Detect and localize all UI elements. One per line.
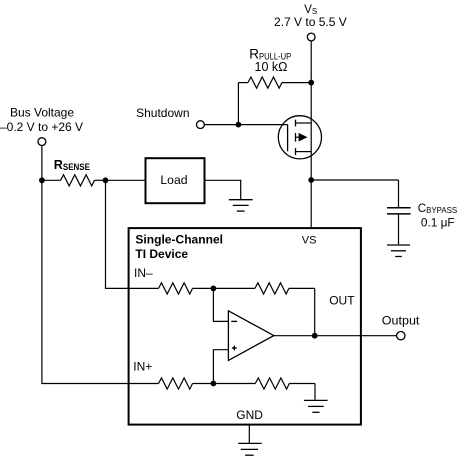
op-amp triangle	[228, 311, 273, 361]
wire source node down to VS pin	[310, 180, 312, 228]
wire load to ground	[205, 180, 241, 199]
junction bus-RSENSE	[39, 177, 45, 183]
svg-text:IN–: IN–	[134, 266, 153, 280]
transistor Q1 PMOS body	[278, 116, 321, 159]
svg-text:CBYPASS: CBYPASS	[418, 203, 458, 215]
junction rail-RPULLUP	[308, 80, 314, 86]
junction shutdown-RPULLUP	[236, 122, 242, 128]
svg-text:Output: Output	[382, 313, 420, 327]
op-amp minus sign	[231, 320, 237, 322]
svg-text:–0.2 V to +26 V: –0.2 V to +26 V	[0, 120, 83, 134]
svg-text:10 kΩ: 10 kΩ	[255, 60, 288, 74]
device box U1	[129, 228, 361, 425]
svg-text:VS: VS	[302, 235, 317, 247]
svg-text:Shutdown: Shutdown	[136, 106, 189, 120]
wire bus node down to IN+ row	[42, 180, 159, 383]
node Bus Voltage label	[0, 106, 83, 134]
svg-text:Bus Voltage: Bus Voltage	[10, 106, 74, 120]
resistor IN+ to ground	[213, 378, 315, 400]
ground at GND pin	[238, 443, 262, 455]
svg-text:Load: Load	[160, 173, 187, 187]
load box	[146, 158, 205, 203]
terminal Shutdown	[197, 121, 205, 129]
wire load node down to IN- row	[106, 180, 159, 288]
terminal VS	[307, 33, 315, 41]
transistor Q1 gate bar	[287, 125, 289, 152]
op-amp plus sign	[232, 346, 237, 351]
wire Q1 right vertical (drain to source)	[310, 123, 312, 180]
resistor feedback	[213, 283, 314, 294]
transistor Q1 source stub	[296, 151, 312, 153]
transistor Q1 channel segments	[295, 120, 297, 156]
wire IN- node to op-amp minus	[213, 288, 228, 321]
node VS supply label	[274, 4, 347, 29]
resistor input IN+	[159, 378, 214, 389]
resistor RPULL-UP	[238, 77, 311, 88]
svg-text:0.1 μF: 0.1 μF	[421, 216, 455, 230]
wire IN+ node to op-amp plus	[213, 350, 228, 384]
svg-text:Single-Channel: Single-Channel	[135, 232, 223, 246]
ground below CBYPASS	[387, 245, 410, 257]
svg-text:IN+: IN+	[133, 360, 152, 374]
junction RSENSE-load	[103, 177, 109, 183]
svg-text:GND: GND	[236, 408, 263, 422]
junction IN+ node	[211, 381, 217, 387]
ground at load	[229, 200, 253, 211]
junction Q1 source node	[308, 177, 314, 183]
svg-text:2.7 V to 5.5 V: 2.7 V to 5.5 V	[274, 15, 347, 29]
svg-text:RSENSE: RSENSE	[54, 158, 90, 172]
junction feedback-output	[312, 333, 318, 339]
wire RPULL-UP left leg down to shutdown line	[237, 83, 239, 125]
wire VS rail down to MOSFET drain	[310, 41, 312, 123]
wire feedback down to output	[314, 288, 316, 335]
wire op-amp output	[274, 335, 397, 337]
wire source node to capacitor	[311, 179, 398, 181]
svg-text:TI Device: TI Device	[135, 247, 188, 261]
wire RSENSE to load	[106, 179, 146, 181]
resistor RSENSE	[42, 175, 106, 186]
wire GND pin	[248, 424, 250, 443]
wire bus terminal down	[41, 146, 43, 181]
terminal Bus Voltage	[38, 138, 46, 146]
resistor input IN-	[159, 283, 214, 294]
ground at IN+ resistor	[304, 400, 328, 412]
svg-text:OUT: OUT	[329, 293, 355, 307]
transistor Q1 body arrow	[296, 136, 301, 138]
capacitor CBYPASS	[387, 180, 411, 244]
terminal Output	[397, 332, 405, 340]
transistor Q1 drain stub	[296, 122, 312, 124]
wire shutdown to gate	[204, 124, 287, 126]
junction IN- node	[211, 286, 217, 292]
